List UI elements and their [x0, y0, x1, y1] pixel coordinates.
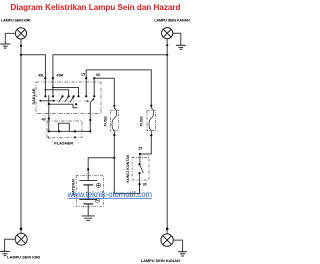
ground G1 [1, 44, 10, 48]
wire L4 to ground [173, 240, 182, 252]
wire right bus 49R to right lamps [53, 55, 167, 78]
wire left main vertical [20, 39, 22, 233]
svg-text:15: 15 [138, 147, 142, 151]
lamp L3 bottom-left (circle with X) [15, 233, 27, 245]
saklar Z-wire moving contact assembly [49, 104, 77, 108]
saklar terminal stub 49R [52, 78, 54, 96]
svg-text:LAMPU SEIN KIRI: LAMPU SEIN KIRI [7, 254, 40, 259]
saklar wire 49 down to flasher L [48, 96, 50, 132]
svg-text:49R: 49R [56, 74, 63, 78]
saklar terminal stub 30 [93, 78, 95, 96]
flasher bimetal bump [59, 123, 70, 131]
node left lamp wire dots [20, 45, 22, 47]
fuse F1 [104, 106, 119, 135]
svg-text:www.teknik-otomotif.com: www.teknik-otomotif.com [67, 190, 152, 199]
lamp L1 top-left (circle with X) [15, 28, 26, 39]
battery minus symbol [95, 198, 99, 202]
svg-text:15: 15 [81, 72, 85, 76]
kunci kontak blade [140, 164, 144, 173]
svg-text:LAMPU SEIN KIRI: LAMPU SEIN KIRI [1, 19, 30, 23]
battery mid stem [87, 185, 89, 200]
svg-text:49L: 49L [38, 74, 45, 78]
battery plus symbol [96, 183, 100, 187]
svg-text:30: 30 [143, 182, 147, 186]
kunci kontak stub 30 [139, 173, 141, 184]
saklar hazard blade with arrow [90, 98, 94, 103]
wire fuse1 bottom down to kunci-kontak 30 [114, 135, 139, 194]
fuse F2 [140, 106, 156, 135]
lamp L2 top-right (circle with X) [162, 28, 173, 39]
battery plate long 2 [80, 199, 97, 201]
baterai box (dash-dot) [76, 175, 103, 206]
node 49 wire dots [48, 103, 50, 105]
ground G3 [0, 251, 9, 255]
wire 15 line: saklar 15 to fuse2 top [86, 70, 151, 106]
svg-text:FUSE: FUSE [140, 116, 144, 127]
flasher element [49, 123, 91, 131]
svg-text:Diagram Kelistrikan Lampu Sein: Diagram Kelistrikan Lampu Sein dan Hazar… [10, 3, 180, 12]
svg-text:49: 49 [41, 117, 45, 121]
saklar box (dash-dot) [36, 82, 101, 114]
wire 30 line: saklar 30 to fuse1 top [94, 78, 114, 106]
saklar mechanical link dash-dot [56, 100, 87, 102]
flasher X wire up to hazard contact [89, 103, 91, 132]
saklar branch 49R to inner contact [53, 88, 79, 97]
svg-text:X: X [74, 135, 77, 139]
lamp L4 bottom-right (circle with X) [161, 234, 173, 246]
battery plate short 2 [84, 203, 93, 205]
wire right main vertical [166, 39, 168, 234]
wire kunci-kontak 15 to fuse2 bottom [140, 135, 151, 154]
wire left lamp bus to 49L [21, 55, 45, 78]
node flasher line dots [48, 130, 50, 132]
wire L3 to ground [5, 239, 16, 251]
node right lamp wire dots [166, 44, 168, 46]
battery (baterai) [80, 180, 97, 220]
svg-text:30: 30 [96, 73, 100, 77]
node kunci kontak terminals [139, 153, 141, 155]
battery plate long 1 [80, 179, 97, 181]
svg-text:L: L [48, 135, 51, 139]
flasher box (dash-dot) [47, 121, 82, 137]
wire battery plus to fuse1 column [88, 158, 114, 181]
saklar terminal stub 49L [44, 78, 46, 96]
kunci kontak stub 15 [139, 154, 141, 164]
battery plate short 1 [84, 184, 93, 186]
saklar terminal stub 15 [85, 78, 87, 96]
svg-text:KUNCI KONTAK: KUNCI KONTAK [126, 154, 130, 183]
svg-text:SAKLAR: SAKLAR [31, 88, 36, 104]
svg-text:LAMPU SEIN KANAN: LAMPU SEIN KANAN [141, 258, 180, 263]
saklar middle blade with arrow [59, 97, 75, 103]
saklar turn blade double arrow [39, 100, 56, 103]
node saklar terminals [44, 77, 46, 79]
wire L1 to ground [5, 33, 15, 44]
flasher baseline L to X [49, 130, 91, 132]
battery ground G5 [82, 216, 94, 221]
kunci kontak (ignition switch) [140, 154, 144, 184]
node saklar contacts [44, 95, 46, 97]
kunci kontak box (dash-dot) [132, 158, 149, 181]
saklar branch 49L to inner contact [45, 90, 68, 97]
battery bottom stem to ground [87, 204, 89, 216]
svg-text:FUSE: FUSE [104, 116, 108, 127]
wire L2 to ground [173, 33, 181, 45]
ground G2 [176, 45, 185, 49]
svg-text:LAMPU SEIN KANAN: LAMPU SEIN KANAN [154, 19, 190, 23]
svg-text:FLASHER: FLASHER [54, 141, 73, 146]
ground G4 [179, 252, 187, 256]
node fuse terminals [113, 105, 115, 107]
node battery junctions [113, 157, 115, 159]
